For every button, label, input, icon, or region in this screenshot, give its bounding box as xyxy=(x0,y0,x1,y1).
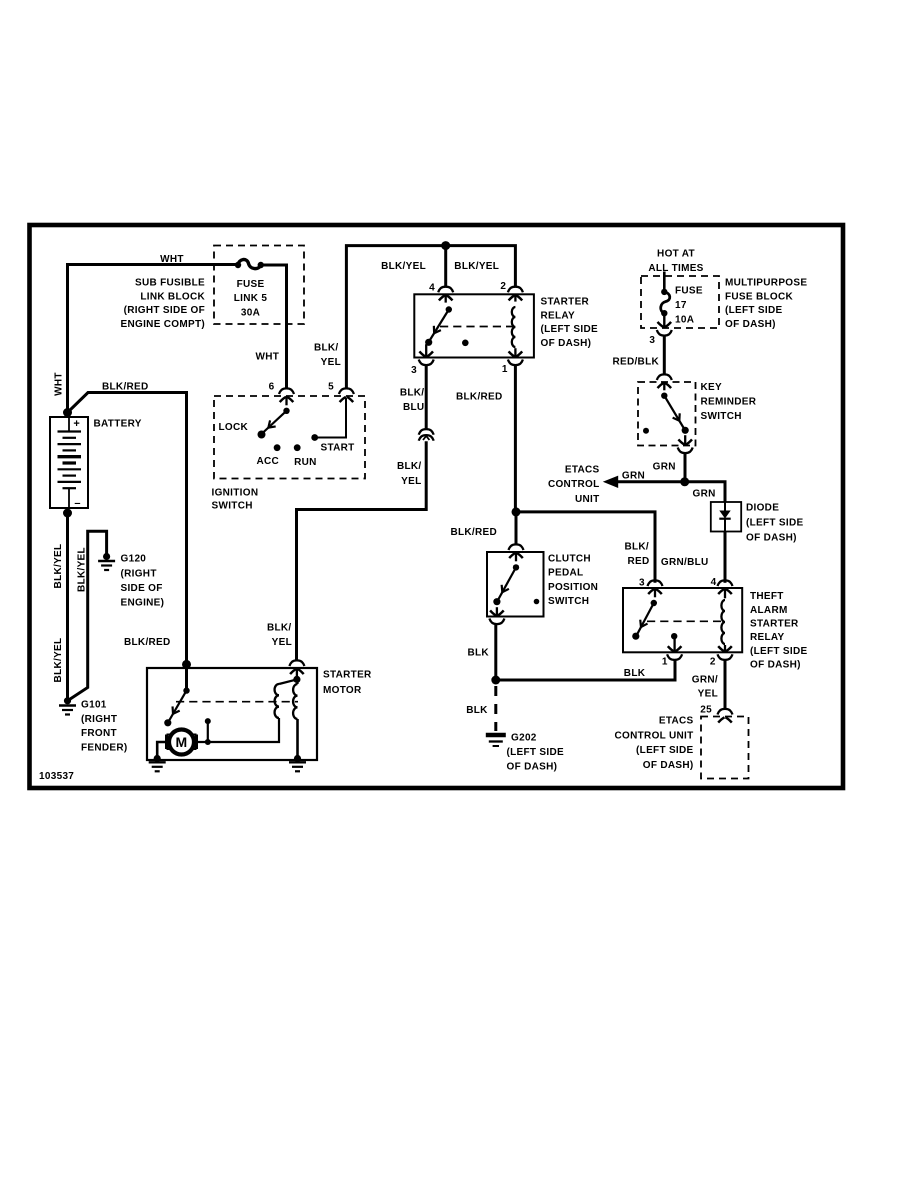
svg-text:MOTOR: MOTOR xyxy=(323,685,362,696)
svg-text:OF DASH): OF DASH) xyxy=(507,762,558,773)
svg-text:(RIGHT: (RIGHT xyxy=(81,714,117,725)
svg-text:YEL: YEL xyxy=(401,476,421,487)
svg-text:RELAY: RELAY xyxy=(750,632,785,643)
svg-text:RED/BLK: RED/BLK xyxy=(612,357,659,368)
svg-text:CONTROL: CONTROL xyxy=(548,479,600,490)
svg-text:OF DASH): OF DASH) xyxy=(541,338,592,349)
svg-text:1: 1 xyxy=(502,364,508,375)
svg-text:ETACS: ETACS xyxy=(659,716,694,727)
svg-text:BLK/: BLK/ xyxy=(400,388,425,399)
svg-text:LINK BLOCK: LINK BLOCK xyxy=(140,291,205,302)
svg-text:SWITCH: SWITCH xyxy=(701,411,742,422)
svg-text:CONTROL UNIT: CONTROL UNIT xyxy=(615,730,694,741)
svg-text:ACC: ACC xyxy=(257,456,280,467)
svg-text:ETACS: ETACS xyxy=(565,465,600,476)
svg-text:GRN: GRN xyxy=(622,470,645,481)
svg-text:BLK/RED: BLK/RED xyxy=(124,637,171,648)
svg-text:LINK 5: LINK 5 xyxy=(234,293,268,304)
svg-text:+: + xyxy=(73,418,80,430)
svg-text:SIDE OF: SIDE OF xyxy=(121,583,163,594)
svg-text:BLK/: BLK/ xyxy=(267,623,292,634)
svg-text:THEFT: THEFT xyxy=(750,591,784,602)
svg-text:BLK/: BLK/ xyxy=(314,343,339,354)
svg-text:BLK/: BLK/ xyxy=(397,461,422,472)
svg-text:POSITION: POSITION xyxy=(548,582,598,593)
svg-text:2: 2 xyxy=(710,657,716,668)
svg-text:ENGINE): ENGINE) xyxy=(121,598,165,609)
svg-text:ALARM: ALARM xyxy=(750,605,788,616)
svg-text:25: 25 xyxy=(700,705,712,716)
svg-text:BLK/RED: BLK/RED xyxy=(102,382,149,393)
svg-text:ALL TIMES: ALL TIMES xyxy=(648,263,703,274)
svg-text:STARTER: STARTER xyxy=(750,619,799,630)
svg-text:OF DASH): OF DASH) xyxy=(725,319,776,330)
svg-text:GRN: GRN xyxy=(653,461,676,472)
svg-text:SWITCH: SWITCH xyxy=(212,501,253,512)
svg-text:103537: 103537 xyxy=(39,771,74,782)
svg-text:START: START xyxy=(321,442,355,453)
svg-text:ENGINE COMPT): ENGINE COMPT) xyxy=(121,319,205,330)
svg-text:(LEFT SIDE: (LEFT SIDE xyxy=(636,745,693,756)
svg-text:G101: G101 xyxy=(81,700,107,711)
svg-text:(LEFT SIDE: (LEFT SIDE xyxy=(746,518,803,529)
svg-text:(LEFT SIDE: (LEFT SIDE xyxy=(725,305,782,316)
svg-text:10A: 10A xyxy=(675,314,694,325)
svg-text:MULTIPURPOSE: MULTIPURPOSE xyxy=(725,278,807,289)
svg-text:WHT: WHT xyxy=(256,352,280,363)
svg-text:OF DASH): OF DASH) xyxy=(746,533,797,544)
svg-text:BLK/YEL: BLK/YEL xyxy=(53,544,64,589)
svg-text:BLK/RED: BLK/RED xyxy=(456,391,503,402)
svg-text:FRONT: FRONT xyxy=(81,728,117,739)
svg-text:WHT: WHT xyxy=(160,254,184,265)
svg-text:OF DASH): OF DASH) xyxy=(643,760,694,771)
svg-text:3: 3 xyxy=(411,365,417,376)
svg-text:BATTERY: BATTERY xyxy=(94,419,142,430)
svg-text:(LEFT SIDE: (LEFT SIDE xyxy=(541,324,598,335)
svg-text:KEY: KEY xyxy=(701,382,722,393)
svg-text:GRN/: GRN/ xyxy=(692,675,718,686)
svg-text:–: – xyxy=(74,498,80,510)
svg-text:REMINDER: REMINDER xyxy=(701,396,757,407)
svg-text:RED: RED xyxy=(627,556,649,567)
svg-text:(RIGHT: (RIGHT xyxy=(121,568,157,579)
svg-text:STARTER: STARTER xyxy=(323,670,372,681)
svg-text:GRN: GRN xyxy=(693,488,716,499)
svg-text:YEL: YEL xyxy=(698,689,718,700)
svg-text:BLK/YEL: BLK/YEL xyxy=(53,638,64,683)
svg-text:LOCK: LOCK xyxy=(218,422,248,433)
svg-text:(RIGHT SIDE OF: (RIGHT SIDE OF xyxy=(124,305,205,316)
svg-text:4: 4 xyxy=(429,282,435,293)
svg-text:2: 2 xyxy=(500,281,506,292)
svg-text:BLK: BLK xyxy=(468,647,490,658)
svg-text:5: 5 xyxy=(328,382,334,393)
svg-text:BLK/RED: BLK/RED xyxy=(450,527,497,538)
svg-text:BLK/YEL: BLK/YEL xyxy=(454,261,499,272)
svg-text:DIODE: DIODE xyxy=(746,503,779,514)
svg-text:RUN: RUN xyxy=(294,457,317,468)
svg-text:BLU: BLU xyxy=(403,402,424,413)
svg-text:CLUTCH: CLUTCH xyxy=(548,554,591,565)
svg-text:RELAY: RELAY xyxy=(541,310,576,321)
svg-text:6: 6 xyxy=(269,382,275,393)
svg-text:30A: 30A xyxy=(241,307,260,318)
svg-text:OF DASH): OF DASH) xyxy=(750,659,801,670)
svg-text:(LEFT SIDE: (LEFT SIDE xyxy=(750,646,807,657)
svg-text:HOT AT: HOT AT xyxy=(657,249,695,260)
svg-text:FUSE BLOCK: FUSE BLOCK xyxy=(725,291,793,302)
svg-text:FENDER): FENDER) xyxy=(81,742,128,753)
svg-text:GRN/BLU: GRN/BLU xyxy=(661,557,709,568)
svg-text:17: 17 xyxy=(675,300,687,311)
svg-text:WHT: WHT xyxy=(53,372,64,396)
svg-text:1: 1 xyxy=(662,657,668,668)
svg-text:FUSE: FUSE xyxy=(237,279,265,290)
svg-text:3: 3 xyxy=(649,335,655,346)
svg-text:3: 3 xyxy=(639,578,645,589)
svg-text:G202: G202 xyxy=(511,733,537,744)
svg-text:BLK: BLK xyxy=(466,705,488,716)
svg-text:STARTER: STARTER xyxy=(541,296,590,307)
svg-text:M: M xyxy=(176,734,188,750)
svg-text:UNIT: UNIT xyxy=(575,494,600,505)
svg-text:IGNITION: IGNITION xyxy=(212,488,259,499)
svg-text:BLK/YEL: BLK/YEL xyxy=(77,547,88,592)
svg-text:BLK/YEL: BLK/YEL xyxy=(381,261,426,272)
svg-text:BLK: BLK xyxy=(624,668,646,679)
svg-text:SUB FUSIBLE: SUB FUSIBLE xyxy=(135,277,205,288)
svg-text:BLK/: BLK/ xyxy=(624,542,649,553)
svg-text:SWITCH: SWITCH xyxy=(548,596,589,607)
svg-text:PEDAL: PEDAL xyxy=(548,568,583,579)
svg-text:4: 4 xyxy=(711,577,717,588)
svg-text:(LEFT SIDE: (LEFT SIDE xyxy=(507,747,564,758)
svg-text:G120: G120 xyxy=(121,554,147,565)
svg-text:FUSE: FUSE xyxy=(675,286,703,297)
svg-text:YEL: YEL xyxy=(272,637,292,648)
svg-text:YEL: YEL xyxy=(321,357,341,368)
